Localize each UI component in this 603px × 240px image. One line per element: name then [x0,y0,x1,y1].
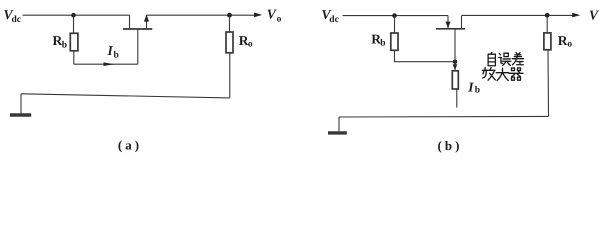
ground (a) [10,113,31,116]
label error amplifier (Chinese) line 2: 放大器 [482,68,523,81]
wire Ro bottom down (b) [547,50,550,117]
char zi 自 [488,52,495,65]
wire bottom return (a) [21,94,230,98]
wire base lead up (b) [454,29,456,62]
svg-text:b: b [62,41,67,51]
node B junction Vo/Ro (a) [227,13,232,18]
wire node C to Rb top (b) [394,16,396,33]
svg-text:o: o [567,40,572,50]
wire bottom return (b) [339,115,549,118]
arrowhead V output (b) [572,13,580,18]
svg-text:R: R [558,33,568,48]
svg-text:dc: dc [329,15,339,25]
transistor Q1 collector lead (a) [129,15,131,28]
current source Ib rectangle (b) [452,71,458,89]
wire Ro bottom down (a) [229,53,231,98]
label Vdc (b) [322,7,339,25]
node D base junction (b) [453,60,458,65]
arrowhead Ib current direction (a) [104,62,115,66]
resistor Rb (b) [391,33,398,50]
label Ro (b) [558,33,573,50]
svg-text:b: b [114,51,119,61]
node A junction Vdc/Rb (a) [71,13,76,18]
char qi 器 [509,68,523,80]
char cha 差 [512,53,523,65]
resistor Rb (a) [70,33,78,51]
svg-text:(b): (b) [438,138,463,153]
resistor Ro (b) [544,33,551,50]
wire node E to Ro top (b) [546,15,548,33]
wire node A to Rb top (a) [73,15,75,33]
svg-text:I: I [467,79,474,94]
wire Ib horizontal to base (a) [74,63,138,65]
char wu 误 [499,53,511,65]
wire top rail left (b) [343,15,449,17]
label Ib (a) [107,43,119,61]
svg-text:o: o [248,40,253,50]
char da 大 [496,68,509,80]
transistor Q1 emitter lead with arrow (a) [146,15,148,28]
transistor Q2 collector lead (b) [461,16,463,29]
transistor Q1 base bar (a) [123,28,152,30]
wire base lead up (a) [137,29,139,64]
transistor Q2 base bar (b) [436,28,465,30]
svg-text:V: V [267,6,277,21]
wire Rb bottom to corner (a) [73,51,75,64]
label Rb (a) [53,33,68,51]
wire current sink bottom stub (b) [456,89,458,108]
svg-text:I: I [107,43,114,58]
svg-text:(a): (a) [118,138,142,153]
svg-text:dc: dc [12,15,22,25]
wire current sink top with arrow (b) [454,62,456,71]
svg-text:V: V [589,8,599,23]
wire top rail right (a) [147,14,255,16]
wire top rail left (a) [23,14,130,16]
arrowhead Vo output (a) [254,13,262,18]
wire top rail right (b) [462,14,573,16]
wire Rb bottom to node D (b) [395,50,453,61]
label error amplifier (Chinese) line 1: 自误差 [488,52,523,65]
char fang 放 [482,68,495,81]
transistor Q2 emitter lead with arrow (b) [447,16,449,29]
node E junction V/Ro (b) [545,13,550,18]
label Ro (a) [239,33,253,49]
resistor Ro (a) [226,32,233,53]
label Vdc (a) [4,7,22,25]
wire ground lead (b) [338,117,340,131]
label Vo (a) [267,6,282,24]
svg-text:b: b [380,38,385,48]
svg-text:b: b [475,85,480,95]
label Ib (b) [467,79,480,95]
node C junction Vdc/Rb (b) [392,13,397,18]
ground (b) [328,131,347,134]
wire ground lead (a) [20,94,22,114]
label Rb (b) [371,31,385,48]
wire node B to Ro top (a) [229,15,231,32]
svg-text:o: o [277,14,282,24]
